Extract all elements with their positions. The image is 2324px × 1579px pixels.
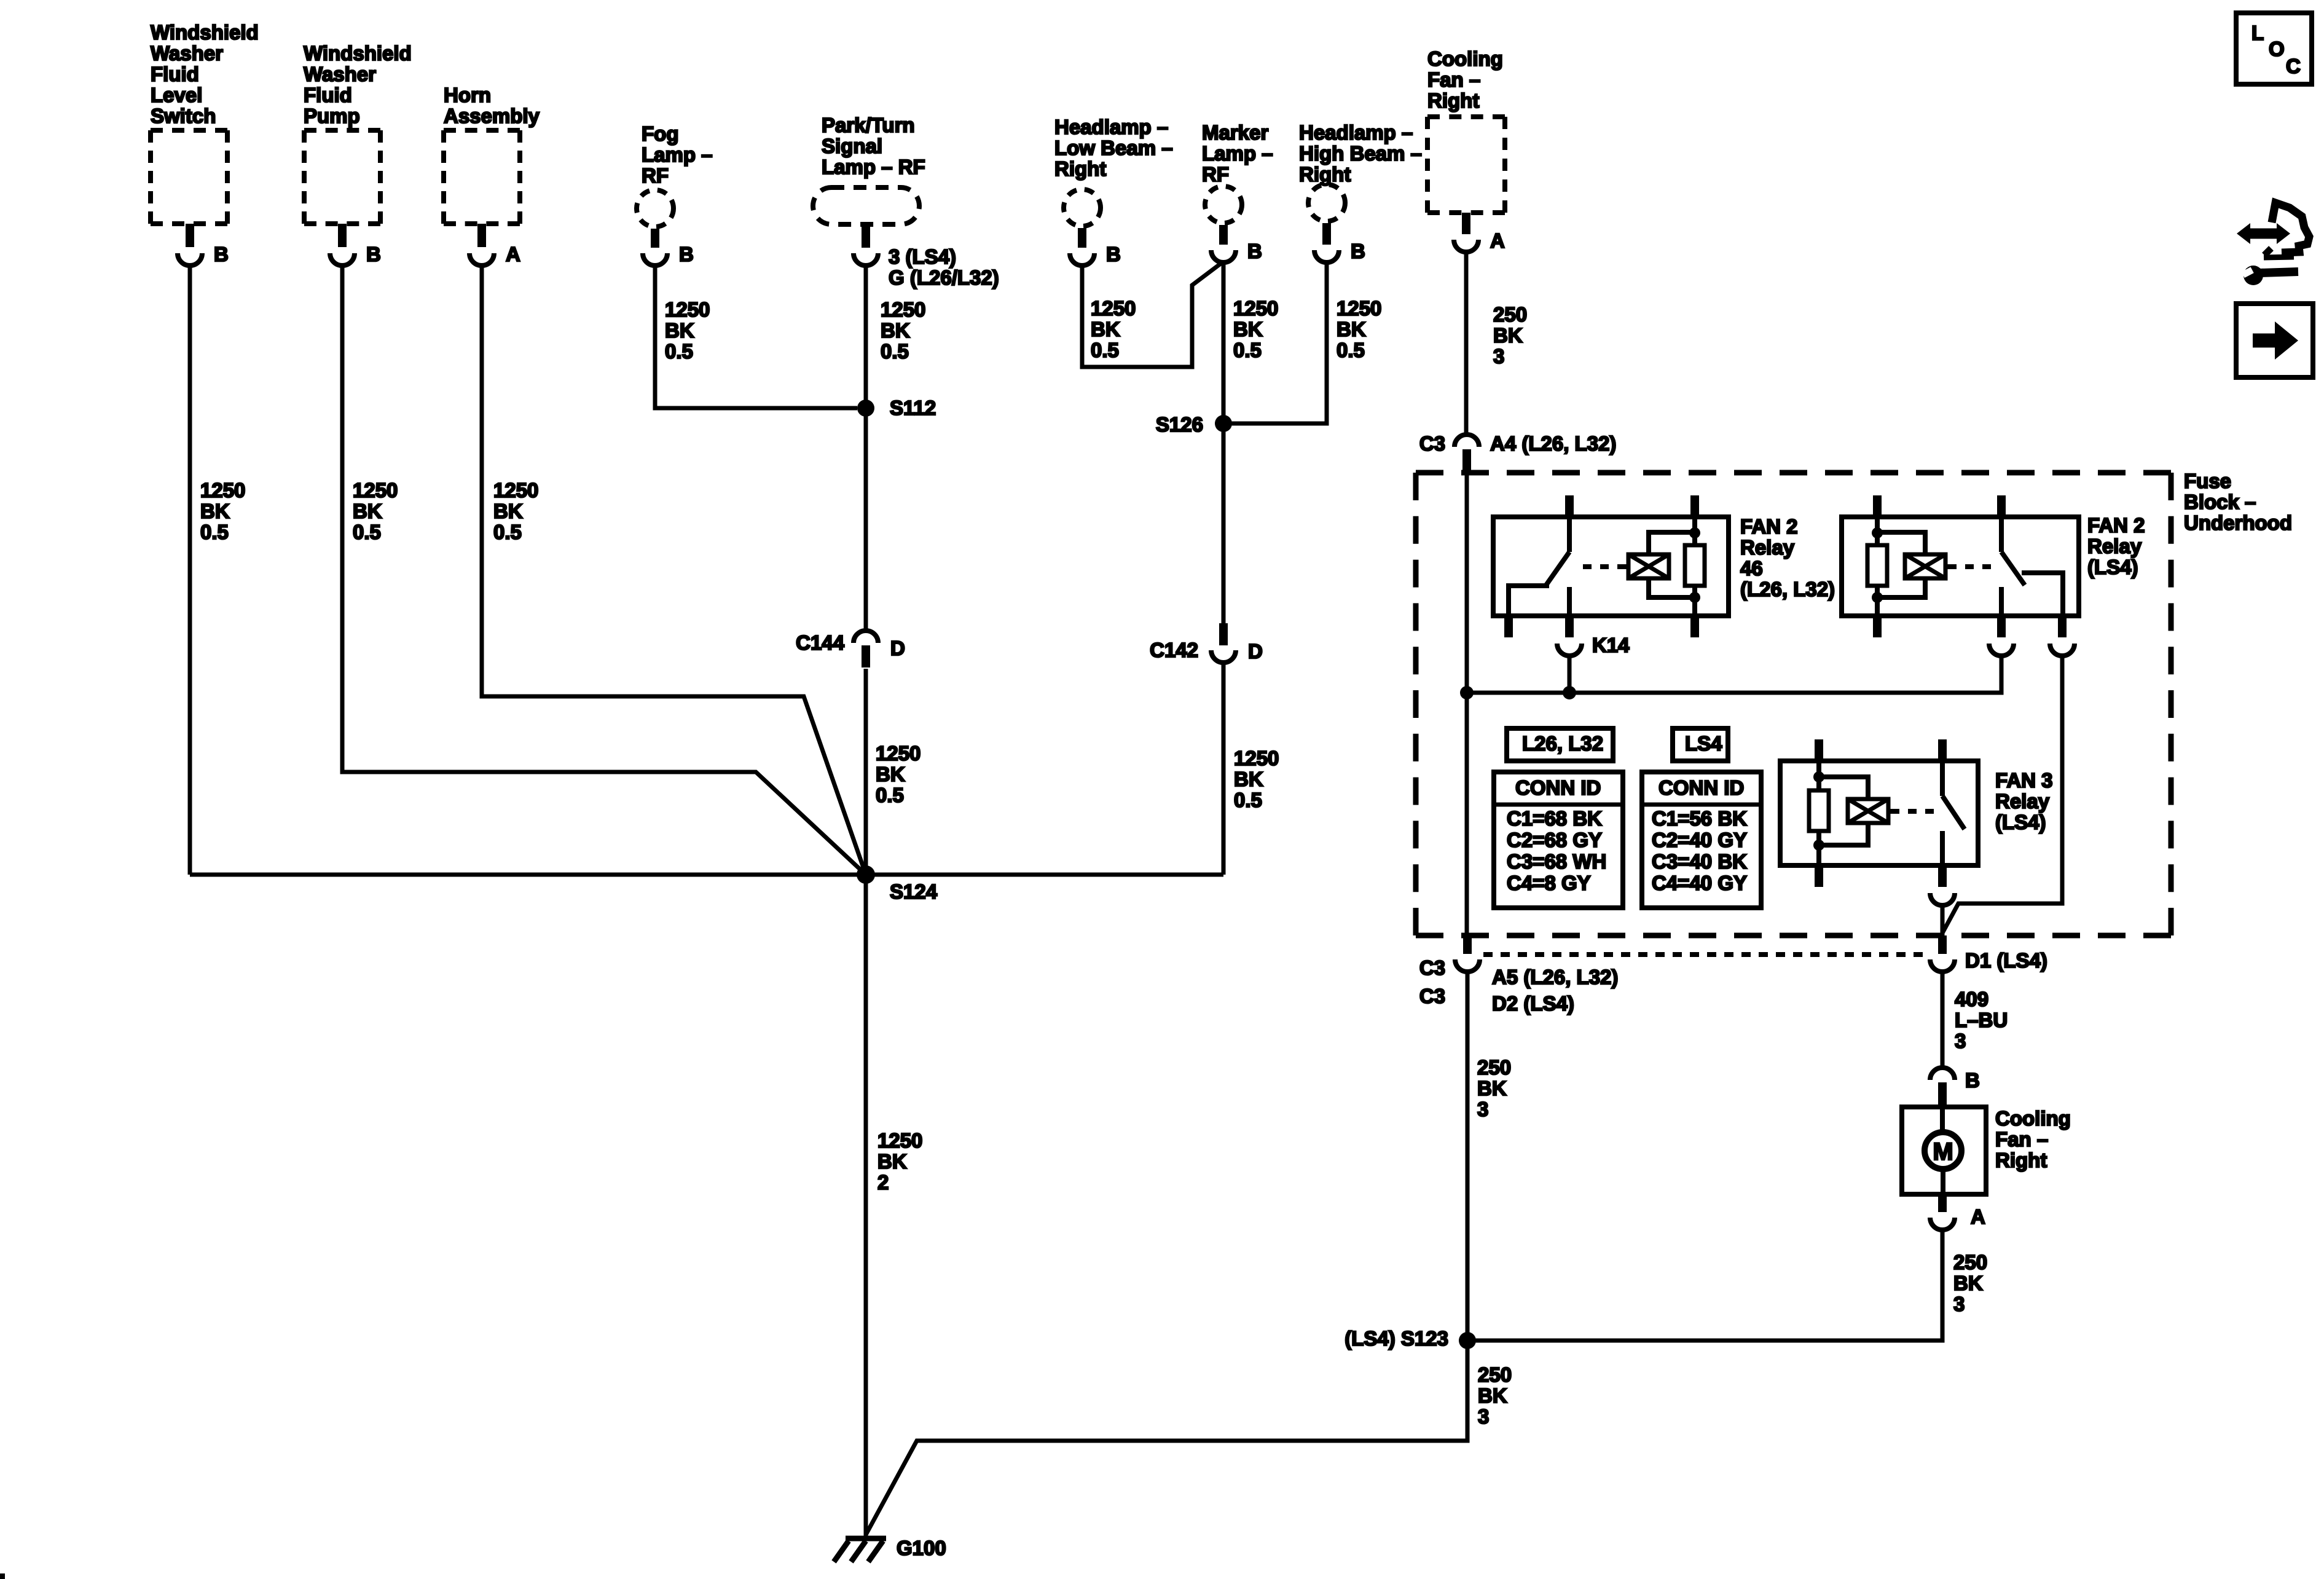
wire: A4 feed down inside fuse block xyxy=(1465,473,1469,935)
svg-text:409: 409 xyxy=(1955,988,1988,1010)
pin stub of park/turn lamp xyxy=(862,227,870,248)
svg-text:M: M xyxy=(1933,1138,1953,1165)
svg-text:L: L xyxy=(2251,22,2264,44)
in-line connector C3 pins A5/D2 xyxy=(1463,935,1472,954)
in-line connector C144 xyxy=(854,631,878,643)
svg-text:A: A xyxy=(1490,229,1505,252)
relay FAN3 top pin (switch) xyxy=(1938,739,1947,761)
wire: K14 to fuse block bus xyxy=(1568,657,1572,693)
wire: marker lamp down to C142 xyxy=(1222,264,1226,623)
svg-text:C3=40 BK: C3=40 BK xyxy=(1652,850,1747,873)
relay 46 top pin (switch) xyxy=(1565,495,1574,517)
svg-text:Signal: Signal xyxy=(822,135,882,157)
svg-text:Fluid: Fluid xyxy=(304,84,352,106)
svg-text:B: B xyxy=(1106,243,1121,266)
variant box LS4 xyxy=(1673,728,1728,761)
svg-text:BK: BK xyxy=(1337,318,1366,341)
connector cup K14 xyxy=(1557,644,1582,656)
svg-text:Block –: Block – xyxy=(2184,490,2256,513)
svg-text:BK: BK xyxy=(353,500,382,522)
relay LS4 resistor xyxy=(1867,517,1887,616)
pin stub of marker lamp xyxy=(1219,225,1228,245)
svg-text:BK: BK xyxy=(1233,318,1263,341)
svg-text:1250: 1250 xyxy=(1234,747,1279,770)
svg-text:BK: BK xyxy=(881,319,910,342)
wire: S124 horizontal right branch to C142 leg xyxy=(866,873,1223,877)
svg-text:BK: BK xyxy=(665,319,694,342)
svg-text:Level: Level xyxy=(151,84,202,106)
svg-text:Windshield: Windshield xyxy=(151,21,259,44)
relay LS4 bottom pin (to D1) xyxy=(2058,616,2067,637)
svg-text:Assembly: Assembly xyxy=(444,104,540,127)
relay LS4 switch xyxy=(2001,517,2063,616)
svg-text:C3: C3 xyxy=(1419,985,1445,1007)
svg-text:A: A xyxy=(506,243,520,266)
svg-text:High Beam –: High Beam – xyxy=(1299,142,1422,165)
svg-text:BK: BK xyxy=(1091,318,1120,341)
relay 46 top pin (coil) xyxy=(1690,495,1699,517)
svg-text:Right: Right xyxy=(1054,157,1106,180)
svg-text:D2 (LS4): D2 (LS4) xyxy=(1492,992,1574,1015)
lamp circle: Marker Lamp - RF xyxy=(1205,186,1242,223)
svg-text:250: 250 xyxy=(1477,1056,1511,1079)
svg-text:BK: BK xyxy=(1234,768,1263,790)
svg-text:Switch: Switch xyxy=(151,104,216,127)
motor M circle xyxy=(1925,1107,1961,1194)
svg-text:Washer: Washer xyxy=(151,42,223,65)
svg-text:1250: 1250 xyxy=(881,298,925,321)
connector cup at washer pump xyxy=(330,253,355,266)
svg-text:Fuse: Fuse xyxy=(2184,470,2231,492)
wire: horn assembly to S124 xyxy=(482,267,866,875)
wire: relay FAN3 cup to D1 xyxy=(1941,907,1945,935)
svg-text:(L26, L32): (L26, L32) xyxy=(1740,578,1835,600)
wire: S124 horizontal left branch xyxy=(190,873,866,877)
connector row dotted line C3 xyxy=(1483,952,1926,957)
svg-text:S124: S124 xyxy=(890,880,938,903)
svg-text:3 (LS4): 3 (LS4) xyxy=(889,245,956,268)
connector cup A at cooling fan (top) xyxy=(1454,240,1478,252)
svg-text:0.5: 0.5 xyxy=(493,521,522,543)
svg-text:C4=8 GY: C4=8 GY xyxy=(1507,872,1591,894)
svg-text:Windshield: Windshield xyxy=(304,42,412,65)
svg-text:0.5: 0.5 xyxy=(1234,789,1262,811)
connector cup under relay FAN3 xyxy=(1930,893,1955,905)
svg-text:BK: BK xyxy=(877,1150,907,1173)
wire: C3/A5 down to S123 xyxy=(1466,973,1470,1341)
LOC reference box (top right) xyxy=(2236,13,2312,84)
relay FAN3 actuator dashes xyxy=(1908,809,1934,814)
CONN ID table (L26, L32) xyxy=(1494,772,1623,908)
connector cup under relay LS4 (D1 side) xyxy=(2050,644,2075,656)
svg-text:C3=68 WH: C3=68 WH xyxy=(1507,850,1606,873)
svg-text:S112: S112 xyxy=(890,396,936,419)
svg-text:C2=68 GY: C2=68 GY xyxy=(1507,829,1602,851)
component box: Windshield Washer Fluid Pump xyxy=(304,130,380,224)
svg-text:L26, L32: L26, L32 xyxy=(1522,732,1603,755)
svg-text:Right: Right xyxy=(1995,1149,2047,1171)
svg-text:LS4: LS4 xyxy=(1685,732,1722,755)
wire: park/turn lamp down to C144 xyxy=(864,267,868,632)
relay K: FAN 2 Relay (LS4) box xyxy=(1842,517,2079,616)
variant box L26, L32 xyxy=(1507,728,1613,761)
svg-text:3: 3 xyxy=(1953,1293,1965,1315)
svg-text:Right: Right xyxy=(1299,163,1351,186)
svg-text:BK: BK xyxy=(1477,1077,1507,1100)
svg-text:Low Beam –: Low Beam – xyxy=(1054,136,1173,159)
svg-text:(LS4): (LS4) xyxy=(2087,556,2138,578)
wire: S123 down and left toward ground xyxy=(917,1341,1467,1441)
svg-text:L–BU: L–BU xyxy=(1955,1009,2008,1031)
wire: motor ground lead to S123 xyxy=(1467,1231,1942,1341)
component box: Cooling Fan - Right (top) xyxy=(1427,117,1505,213)
wire: ground branch up to S123 xyxy=(866,1341,1467,1535)
relay 46 switch xyxy=(1509,517,1569,616)
svg-text:B: B xyxy=(1351,240,1365,262)
svg-text:1250: 1250 xyxy=(1233,297,1278,320)
svg-text:A: A xyxy=(1971,1205,1985,1228)
relay 46 bottom pin 46 xyxy=(1565,616,1574,637)
connector cup at level switch xyxy=(178,253,202,266)
svg-text:Relay: Relay xyxy=(2087,535,2142,557)
svg-text:BK: BK xyxy=(493,500,523,522)
relay FAN3 top coil pin xyxy=(1815,739,1823,761)
svg-text:3: 3 xyxy=(1493,345,1504,368)
svg-text:B: B xyxy=(1965,1069,1980,1092)
wire: C144 through S124 to ground G100 xyxy=(864,669,868,1536)
junction: bus at A4 feed xyxy=(1460,686,1474,699)
wire: C142 down to S124 branch xyxy=(1222,664,1226,875)
svg-text:C142: C142 xyxy=(1150,639,1198,661)
wire: D1 down to connector B xyxy=(1941,973,1945,1069)
svg-text:BK: BK xyxy=(200,500,230,522)
svg-text:Relay: Relay xyxy=(1740,536,1795,559)
wire: low beam headlamp to marker lamp connector xyxy=(1082,262,1222,367)
relay 46 resistor xyxy=(1685,517,1705,616)
svg-text:46: 46 xyxy=(1740,557,1763,580)
svg-text:Fog: Fog xyxy=(642,122,678,145)
in-line connector D1 (LS4) xyxy=(1938,935,1947,954)
in-line connector C3 pin A4 xyxy=(1454,435,1479,447)
svg-text:Cooling: Cooling xyxy=(1995,1107,2071,1130)
relay LS4 top pin (switch) xyxy=(1997,495,2006,517)
svg-text:0.5: 0.5 xyxy=(1337,339,1365,361)
svg-text:2: 2 xyxy=(877,1171,889,1194)
svg-text:B: B xyxy=(1247,240,1262,262)
relay FAN3 coil xyxy=(1819,777,1899,845)
svg-text:0.5: 0.5 xyxy=(1091,339,1119,361)
svg-text:Washer: Washer xyxy=(304,63,376,85)
connector cup at park/turn lamp xyxy=(854,253,878,266)
pin stub of fog lamp xyxy=(651,229,659,248)
connector cup at low beam headlamp xyxy=(1070,253,1094,266)
relay LS4 bottom pin (to bus) xyxy=(1997,616,2006,637)
svg-text:Marker: Marker xyxy=(1202,121,1268,144)
svg-text:Pump: Pump xyxy=(304,104,360,127)
svg-text:0.5: 0.5 xyxy=(353,521,381,543)
junction: bus at K14 xyxy=(1563,686,1576,699)
CONN ID table (LS4) xyxy=(1642,772,1761,908)
pin stub below motor xyxy=(1938,1194,1947,1212)
relay FAN3 resistor xyxy=(1809,761,1829,865)
component box: Horn Assembly xyxy=(444,130,520,224)
wire: cooling fan down to C3/A4 xyxy=(1464,253,1469,433)
relay LS4 actuator dashes xyxy=(1965,564,1991,569)
connector cup at horn assembly xyxy=(469,253,494,266)
ground symbol G100 xyxy=(834,1538,886,1562)
svg-text:FAN 2: FAN 2 xyxy=(1740,515,1798,538)
svg-text:0.5: 0.5 xyxy=(665,340,693,363)
pin stub of level switch xyxy=(186,224,194,247)
pin stub of cooling fan (top) xyxy=(1462,213,1470,234)
relay K: FAN 2 Relay 46 (L26, L32) box xyxy=(1493,517,1729,616)
svg-text:C: C xyxy=(2286,55,2301,77)
connector cup at fog lamp xyxy=(643,253,667,266)
relay FAN3 switch xyxy=(1942,761,1965,865)
wire: high beam headlamp to S126 xyxy=(1223,264,1327,423)
lamp circle: Fog Lamp - RF xyxy=(637,190,673,227)
in-line connector C142 xyxy=(1219,623,1228,645)
svg-text:Lamp – RF: Lamp – RF xyxy=(822,156,925,178)
svg-text:0.5: 0.5 xyxy=(200,521,229,543)
motor box: Cooling Fan - Right xyxy=(1902,1107,1986,1194)
lamp stadium: Park/Turn Signal Lamp - RF xyxy=(813,187,919,224)
svg-text:BK: BK xyxy=(876,763,905,786)
connector cup under relay LS4 (bus side) xyxy=(1989,644,2014,656)
svg-text:A5 (L26, L32): A5 (L26, L32) xyxy=(1492,966,1618,988)
wire: fuse block bus from A4 feed to relay LS4 xyxy=(1467,657,2001,693)
svg-text:D1 (LS4): D1 (LS4) xyxy=(1965,949,2047,972)
svg-text:RF: RF xyxy=(1202,163,1229,186)
svg-text:G (L26/L32): G (L26/L32) xyxy=(889,266,999,289)
svg-text:C1=56 BK: C1=56 BK xyxy=(1652,807,1747,830)
svg-text:Lamp –: Lamp – xyxy=(642,143,713,166)
svg-text:BK: BK xyxy=(1953,1272,1983,1294)
svg-text:C3: C3 xyxy=(1419,432,1445,455)
svg-text:A4 (L26, L32): A4 (L26, L32) xyxy=(1490,432,1616,455)
svg-text:3: 3 xyxy=(1478,1405,1489,1428)
relay LS4 coil xyxy=(1877,532,1957,597)
svg-text:Headlamp –: Headlamp – xyxy=(1299,121,1413,144)
svg-text:C4=40 GY: C4=40 GY xyxy=(1652,872,1747,894)
svg-text:250: 250 xyxy=(1953,1251,1987,1274)
svg-text:CONN ID: CONN ID xyxy=(1515,776,1601,799)
splice S126 xyxy=(1215,415,1232,432)
connector cup A at motor xyxy=(1930,1218,1955,1230)
wire: relay LS4 to D1 junction xyxy=(1942,657,2062,933)
svg-text:Park/Turn: Park/Turn xyxy=(822,114,915,136)
svg-text:250: 250 xyxy=(1493,303,1527,326)
relay FAN3 bottom pin (to D1) xyxy=(1938,865,1947,887)
relay 46 coil xyxy=(1617,532,1695,597)
in-line connector B at cooling fan motor xyxy=(1930,1068,1955,1080)
wire: level switch to S124 horizontal xyxy=(188,267,192,875)
svg-text:D: D xyxy=(890,637,905,660)
svg-text:0.5: 0.5 xyxy=(876,784,904,806)
svg-text:CONN ID: CONN ID xyxy=(1659,776,1744,799)
svg-text:Cooling: Cooling xyxy=(1427,47,1503,70)
svg-text:S126: S126 xyxy=(1156,413,1203,436)
svg-text:1250: 1250 xyxy=(1337,297,1381,320)
svg-text:G100: G100 xyxy=(897,1537,946,1559)
component box: Windshield Washer Fluid Level Switch xyxy=(151,130,227,224)
relay K: FAN 3 Relay (LS4) box xyxy=(1780,761,1978,865)
svg-text:Fluid: Fluid xyxy=(151,63,199,85)
svg-text:BK: BK xyxy=(1478,1384,1507,1407)
svg-text:D: D xyxy=(1248,640,1263,663)
relay LS4 top coil pin xyxy=(1873,495,1882,517)
svg-text:B: B xyxy=(679,243,694,266)
svg-text:K14: K14 xyxy=(1592,634,1630,656)
pin stub of horn assembly xyxy=(477,224,486,247)
relay 46 bottom coil pin xyxy=(1690,616,1699,637)
lamp circle: Headlamp - High Beam - Right xyxy=(1308,184,1345,221)
icon: arrow in box xyxy=(2236,304,2313,377)
svg-text:FAN 3: FAN 3 xyxy=(1995,769,2053,792)
wire: fog lamp to S112 xyxy=(655,267,857,408)
svg-text:Horn: Horn xyxy=(444,84,491,106)
svg-text:Headlamp –: Headlamp – xyxy=(1054,116,1168,138)
svg-text:Underhood: Underhood xyxy=(2184,511,2292,534)
svg-text:C144: C144 xyxy=(796,631,845,654)
svg-text:0.5: 0.5 xyxy=(881,340,909,363)
svg-text:Fan –: Fan – xyxy=(1427,68,1480,91)
splice S112 xyxy=(857,400,874,417)
relay LS4 bottom coil pin xyxy=(1873,616,1882,637)
pin stub of washer pump xyxy=(338,224,347,247)
svg-text:C2=40 GY: C2=40 GY xyxy=(1652,829,1747,851)
svg-text:Relay: Relay xyxy=(1995,790,2050,813)
svg-text:RF: RF xyxy=(642,164,669,187)
svg-text:B: B xyxy=(214,243,229,266)
fuse block - underhood dashed boundary xyxy=(1416,473,2171,935)
svg-text:C1=68 BK: C1=68 BK xyxy=(1507,807,1602,830)
svg-text:3: 3 xyxy=(1955,1030,1966,1052)
svg-text:Lamp –: Lamp – xyxy=(1202,142,1273,165)
icon: hotlink arrows with wrench xyxy=(2237,203,2309,285)
svg-text:0.5: 0.5 xyxy=(1233,339,1262,361)
svg-text:FAN 2: FAN 2 xyxy=(2087,514,2145,537)
pin stub of high beam headlamp xyxy=(1322,223,1331,245)
svg-text:1250: 1250 xyxy=(877,1129,922,1152)
svg-text:Right: Right xyxy=(1427,89,1479,112)
svg-text:O: O xyxy=(2269,37,2285,60)
lamp circle: Headlamp - Low Beam - Right xyxy=(1064,189,1101,226)
svg-text:1250: 1250 xyxy=(493,479,538,502)
svg-text:C3: C3 xyxy=(1419,956,1445,979)
relay 46 actuator dashes xyxy=(1583,564,1609,569)
wire: washer pump to S124 xyxy=(342,267,866,875)
relay 46 bottom left pin xyxy=(1504,616,1513,637)
svg-text:3: 3 xyxy=(1477,1098,1488,1120)
svg-text:(LS4) S123: (LS4) S123 xyxy=(1345,1327,1448,1350)
svg-text:BK: BK xyxy=(1493,324,1523,347)
splice S124 xyxy=(857,865,875,884)
svg-text:B: B xyxy=(366,243,381,266)
svg-text:1250: 1250 xyxy=(200,479,245,502)
splice S123 (LS4) xyxy=(1459,1332,1476,1349)
svg-text:1250: 1250 xyxy=(353,479,398,502)
svg-text:(LS4): (LS4) xyxy=(1995,811,2046,833)
svg-text:250: 250 xyxy=(1478,1363,1512,1386)
relay FAN3 bottom coil pin xyxy=(1815,865,1823,887)
connector cup at marker lamp xyxy=(1211,250,1236,262)
svg-text:1250: 1250 xyxy=(876,742,921,765)
svg-text:Fan –: Fan – xyxy=(1995,1128,2048,1151)
connector cup at high beam headlamp xyxy=(1314,250,1339,262)
svg-text:1250: 1250 xyxy=(665,298,710,321)
svg-text:1250: 1250 xyxy=(1091,297,1136,320)
pin stub of low beam headlamp xyxy=(1078,228,1086,248)
